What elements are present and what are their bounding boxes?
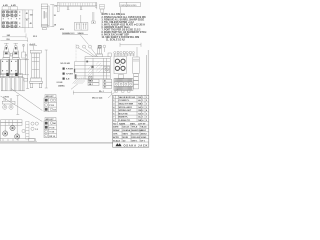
- svg-text:TITLE: TITLE: [132, 127, 138, 129]
- svg-text:95: 95: [54, 15, 56, 17]
- svg-text:SPOOL ASSY: SPOOL ASSY: [119, 106, 133, 109]
- svg-text:DATE: DATE: [113, 126, 119, 129]
- svg-text:NB: NB: [138, 104, 142, 106]
- svg-text:NAME: NAME: [119, 122, 126, 125]
- svg-text:DWG: DWG: [121, 5, 127, 7]
- svg-text:DWG B3: DWG B3: [132, 137, 141, 139]
- svg-text:OKADA: OKADA: [123, 129, 131, 132]
- svg-text:NOTE 1. ALL DIM mm: NOTE 1. ALL DIM mm: [102, 13, 125, 16]
- svg-text:BLOCK: BLOCK: [132, 134, 140, 136]
- svg-text:OGAWA-12-3: OGAWA-12-3: [62, 32, 75, 35]
- svg-text:VB-24: VB-24: [141, 126, 148, 129]
- svg-text:9. PACK EACH UNIT SEP: 9. PACK EACH UNIT SEP: [102, 34, 130, 37]
- svg-text:2-R10: 2-R10: [3, 96, 9, 98]
- svg-text:4-M5: 4-M5: [3, 4, 9, 7]
- svg-text:B3-10245: B3-10245: [127, 5, 137, 7]
- svg-text:172: 172: [54, 5, 57, 7]
- svg-text:OSAKA JACK: OSAKA JACK: [124, 143, 149, 147]
- svg-text:45: 45: [30, 22, 32, 25]
- svg-text:A2: A2: [104, 83, 106, 86]
- svg-text:45: 45: [26, 12, 28, 15]
- svg-text:A5052: A5052: [141, 133, 148, 136]
- svg-text:11. SCALE 1/2 A2: 11. SCALE 1/2 A2: [106, 39, 126, 42]
- svg-text:MORI: MORI: [123, 137, 129, 139]
- svg-text:M6x1.0 (12): M6x1.0 (12): [92, 98, 103, 100]
- svg-text:4B-1: 4B-1: [89, 83, 93, 86]
- svg-text:SCALE: SCALE: [113, 139, 121, 142]
- svg-text:CHK: CHK: [113, 134, 118, 136]
- svg-text:A1: A1: [104, 80, 106, 83]
- svg-text:BOLT M6: BOLT M6: [119, 113, 129, 115]
- svg-text:P-PORT: P-PORT: [66, 68, 74, 70]
- svg-text:4B-2: 4B-2: [89, 80, 93, 83]
- svg-text:DR 14: DR 14: [49, 135, 55, 138]
- svg-text:QTY NT: QTY NT: [138, 123, 146, 125]
- svg-text:VALVE BODY A2: VALVE BODY A2: [119, 96, 136, 99]
- svg-text:O-RING P11: O-RING P11: [119, 120, 132, 122]
- svg-text:SPRING SET: SPRING SET: [119, 110, 132, 112]
- svg-text:2-G1/4: 2-G1/4: [57, 81, 64, 84]
- svg-text:10245: 10245: [141, 136, 148, 139]
- svg-text:35: 35: [26, 20, 28, 22]
- svg-text:SS400: SS400: [78, 32, 85, 35]
- svg-text:4-M5: 4-M5: [11, 4, 17, 7]
- svg-text:04.6.21: 04.6.21: [123, 126, 131, 129]
- svg-text:APPR: APPR: [113, 136, 119, 139]
- svg-text:NO.12-345: NO.12-345: [61, 62, 70, 65]
- svg-text:NB: NB: [138, 120, 142, 122]
- svg-text:SATO: SATO: [123, 133, 129, 136]
- svg-text:ASSY: ASSY: [141, 129, 147, 132]
- svg-text:SHT 1: SHT 1: [132, 140, 139, 142]
- svg-text:P1 38: P1 38: [49, 127, 54, 129]
- svg-text:SEAL KIT NBR: SEAL KIT NBR: [119, 103, 134, 106]
- svg-text:T1 38: T1 38: [49, 132, 54, 134]
- svg-text:55+.1: 55+.1: [99, 91, 104, 93]
- svg-text:3. REMOVE ALL BURRS, SHARP EDG: 3. REMOVE ALL BURRS, SHARP EDGE: [102, 18, 145, 21]
- svg-text:MATL: MATL: [130, 122, 136, 125]
- svg-text:AIR LIST: AIR LIST: [46, 118, 55, 121]
- svg-text:5. MATL A5052P-H112 PLATE t=12: 5. MATL A5052P-H112 PLATE t=12 JIS H: [102, 23, 146, 26]
- svg-text:AIR LIST: AIR LIST: [46, 95, 55, 98]
- svg-text:A3: A3: [104, 86, 106, 89]
- svg-text:4-o5.5: 4-o5.5: [30, 43, 37, 46]
- svg-text:MTG: MTG: [60, 29, 65, 31]
- svg-text:P 3/8: P 3/8: [49, 105, 53, 107]
- svg-text:NO: NO: [113, 123, 117, 125]
- svg-text:NAME PL: NAME PL: [119, 116, 129, 119]
- svg-text:COVER PL: COVER PL: [119, 100, 130, 102]
- svg-text:(TANK): (TANK): [58, 85, 65, 88]
- svg-text:DRAW: DRAW: [113, 129, 119, 132]
- svg-text:1.5: 1.5: [35, 129, 38, 131]
- svg-text:T-PORT: T-PORT: [66, 73, 74, 75]
- svg-text:28: 28: [54, 25, 56, 27]
- svg-text:118: 118: [30, 14, 33, 16]
- svg-text:SW: SW: [138, 110, 141, 112]
